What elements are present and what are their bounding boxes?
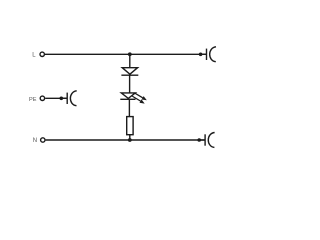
- wire N bus (bottom horizontal): [46, 139, 206, 141]
- wire between D1 cathode and D2 anode: [129, 75, 131, 93]
- wire PE stub: [45, 97, 67, 99]
- connector plug bottom-right: [197, 133, 214, 148]
- terminal N: [41, 138, 45, 142]
- connector plug PE: [60, 91, 77, 106]
- terminal L: [40, 52, 44, 56]
- wire L bus (top horizontal): [45, 53, 207, 55]
- connector plug top-right: [199, 47, 216, 62]
- terminal PE: [40, 96, 44, 100]
- wire vertical branch: top bus to diode D1: [129, 54, 131, 68]
- junction dot top node: [128, 52, 132, 56]
- LED D2 emission arrow 2: [132, 96, 145, 104]
- resistor R1: [127, 117, 133, 135]
- svg-text:PE: PE: [29, 97, 37, 103]
- svg-text:N: N: [33, 138, 37, 144]
- svg-text:L: L: [32, 53, 36, 59]
- LED D2 emission arrow 1: [134, 93, 147, 101]
- LED D2: [120, 93, 135, 99]
- wire between D2 cathode and resistor R1: [128, 99, 130, 116]
- junction dot bottom node: [128, 138, 132, 142]
- diode D1: [121, 68, 138, 76]
- wire resistor R1 to bottom bus: [129, 135, 131, 140]
